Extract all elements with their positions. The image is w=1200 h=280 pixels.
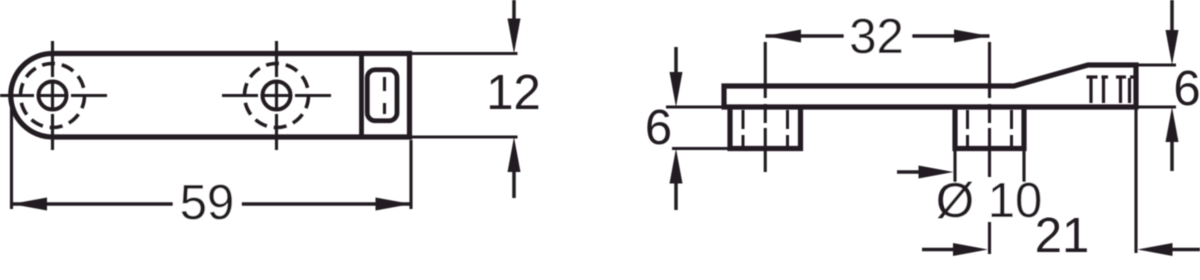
plate outline	[11, 54, 410, 138]
dim 59 label box	[173, 173, 242, 229]
svg-text:6: 6	[1173, 62, 1200, 116]
svg-text:Ø 10: Ø 10	[936, 174, 1042, 228]
plate side outline	[724, 65, 1136, 107]
tab boundary line	[359, 54, 364, 138]
dim Ø10 leader arrow	[897, 170, 925, 174]
hole 1 bore circle	[39, 82, 67, 110]
dim 32 arrow left	[766, 30, 802, 43]
dim 6 right arrow top	[1170, 0, 1174, 31]
svg-text:32: 32	[849, 10, 904, 64]
boss bottom extension left for dim 6	[672, 147, 730, 150]
dim 12 extension line bottom	[412, 135, 518, 138]
hole 2 bore circle	[263, 82, 291, 110]
boss 1 hidden lines	[743, 110, 788, 147]
dim 59 arrow left	[12, 198, 48, 211]
dim 12 extension line top	[412, 52, 518, 55]
svg-text:6: 6	[645, 101, 672, 155]
dim 6 right extension top	[1138, 63, 1176, 66]
dim Ø10 label box	[945, 182, 1045, 220]
dim 32 label box	[844, 8, 912, 62]
dim 59 line	[12, 202, 412, 206]
hole 2 centerline vertical	[275, 41, 278, 150]
boss 2 hidden lines	[968, 110, 1012, 147]
dim 6 left arrow top	[674, 47, 678, 73]
dim 12 arrow top	[512, 0, 516, 20]
boss 1 outline	[730, 107, 801, 149]
dim 32 arrow right	[954, 30, 990, 43]
hole 2 centerline horizontal	[222, 94, 331, 97]
boss 2 edge extensions for diameter dim	[955, 149, 1024, 187]
boss 2 centerline lower segments	[988, 222, 991, 254]
svg-text:21: 21	[1035, 209, 1090, 263]
hole 2 hidden circle	[245, 64, 309, 128]
dim 21 right extension line	[1134, 109, 1137, 253]
hole 1 hidden circle	[21, 64, 85, 128]
dim 6 left arrow bottom	[674, 183, 678, 210]
hole 1 centerline vertical	[51, 41, 54, 150]
slot dashed centerline	[383, 77, 386, 114]
boss 1 centerline	[764, 42, 767, 172]
hidden clip slot left	[1087, 77, 1109, 103]
boss 2 outline	[955, 107, 1024, 149]
bottom edge extension left for dim 6	[666, 105, 724, 108]
hidden clip slot right	[1116, 77, 1134, 103]
dim 21 left arrow	[922, 248, 958, 252]
dim 12 arrow bottom	[512, 170, 516, 198]
svg-text:12: 12	[486, 66, 541, 120]
dim 6 right arrow bottom	[1170, 141, 1174, 171]
slot rounded rect	[367, 70, 397, 121]
dim 59 extension line left	[10, 106, 13, 209]
dim 32 line	[766, 34, 990, 38]
dim 59 extension line right	[409, 140, 412, 209]
svg-text:59: 59	[180, 176, 235, 230]
dim 59 arrow right	[376, 198, 412, 211]
boss 2 centerline	[988, 42, 991, 177]
dim 21 right arrow	[1168, 248, 1200, 252]
hole 1 centerline horizontal	[0, 94, 107, 97]
dim 6 right extension bottom	[1138, 105, 1176, 108]
